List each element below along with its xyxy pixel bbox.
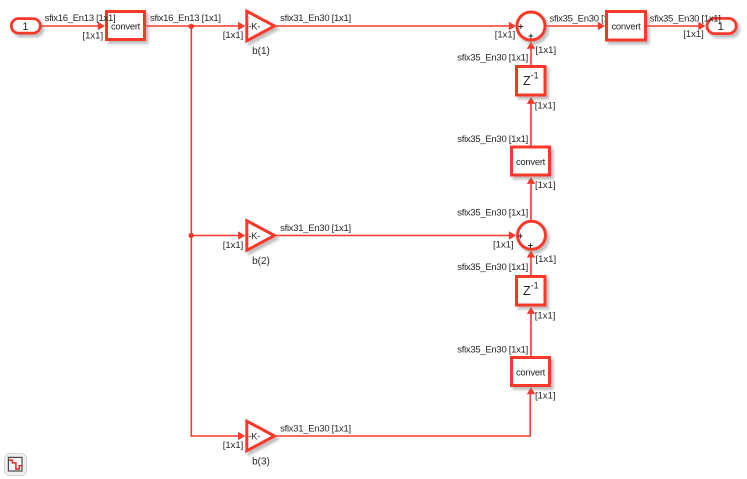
svg-text:-K-: -K-: [248, 231, 260, 242]
sample time legend button: [5, 454, 27, 476]
svg-text:[1x1]: [1x1]: [535, 180, 556, 191]
svg-text:sfix35_En30 [1x1]: sfix35_En30 [1x1]: [650, 13, 721, 24]
svg-text:sfix35_En30 [1x1]: sfix35_En30 [1x1]: [457, 134, 528, 145]
arrowhead: into Convert2: [598, 22, 605, 30]
svg-text:1: 1: [22, 21, 28, 33]
block: Delay1 Z^-1: [517, 67, 546, 96]
junction dot at branch row1: [189, 24, 194, 29]
wire: Convert2 to Out1: [647, 25, 699, 27]
svg-text:convert: convert: [516, 367, 546, 378]
arrowhead: into Sum1 left input: [509, 22, 516, 30]
arrowhead: into Delay1 bottom: [527, 97, 535, 104]
svg-text:[1x1]: [1x1]: [82, 31, 103, 42]
block: input port In1: [11, 19, 40, 33]
arrowhead: into Sum2 bottom input: [527, 250, 535, 257]
wire: b(2) row horizontal: [191, 235, 239, 237]
svg-text:[1x1]: [1x1]: [493, 240, 514, 251]
svg-text:[1x1]: [1x1]: [223, 440, 244, 451]
wire: b(3) to Convert4 (corner): [277, 389, 531, 436]
arrowhead: into Convert4 bottom: [527, 387, 535, 394]
block: output port Out1: [707, 18, 736, 33]
block: gain b(2): [247, 221, 275, 251]
svg-text:[1x1]: [1x1]: [535, 100, 556, 111]
svg-text:+: +: [518, 21, 523, 31]
svg-text:[1x1]: [1x1]: [223, 30, 244, 41]
svg-text:+: +: [518, 231, 523, 241]
arrowhead: into Convert1: [98, 22, 105, 30]
svg-text:sfix35_En30 [1x1]: sfix35_En30 [1x1]: [457, 208, 528, 219]
block: Sum1: [517, 12, 545, 40]
svg-text:convert: convert: [516, 157, 546, 168]
svg-text:sfix31_En30 [1x1]: sfix31_En30 [1x1]: [280, 424, 351, 435]
wire: branch vertical x=191: [190, 26, 192, 436]
svg-text:sfix35_En30 [1x1]: sfix35_En30 [1x1]: [457, 53, 528, 64]
svg-text:+: +: [528, 31, 533, 41]
svg-text:[1x1]: [1x1]: [223, 240, 244, 251]
block: Convert1: [107, 12, 145, 40]
svg-text:sfix35_En30 [1x1]: sfix35_En30 [1x1]: [457, 345, 528, 356]
svg-text:[1x1]: [1x1]: [535, 391, 556, 402]
block: Convert2: [607, 12, 646, 41]
sample time staircase icon: [9, 460, 22, 469]
wire: b(1) to Sum1: [277, 25, 511, 27]
wire: branch to b(3) bottom row: [190, 435, 239, 437]
block: Delay2 Z^-1: [517, 277, 546, 306]
wire: Convert3 to Delay1: [530, 99, 532, 146]
svg-text:b(2): b(2): [252, 256, 270, 267]
arrowhead: into Out1: [698, 22, 705, 30]
svg-text:[1x1]: [1x1]: [536, 254, 557, 265]
arrowhead: into Sum2 left input: [509, 231, 516, 239]
block: gain b(1): [247, 11, 275, 41]
svg-text:[1x1]: [1x1]: [535, 311, 556, 322]
wire: Sum2 to Convert3: [530, 179, 532, 220]
svg-text:[1x1]: [1x1]: [495, 30, 516, 41]
svg-text:sfix31_En30 [1x1]: sfix31_En30 [1x1]: [280, 13, 351, 24]
svg-text:-K-: -K-: [248, 22, 260, 33]
svg-text:sfix35_En30 [1x1]: sfix35_En30 [1x1]: [457, 262, 528, 273]
arrowhead: into b(3): [238, 432, 245, 440]
arrowhead: into b(1): [238, 22, 245, 30]
wire: In1 to Convert1: [41, 25, 99, 27]
arrowhead: into Sum1 bottom input: [527, 42, 535, 49]
wire: b(2) to Sum2: [277, 235, 511, 237]
svg-text:b(3): b(3): [252, 457, 270, 468]
wire: Convert1 to branch to b(1): [146, 25, 239, 27]
wire: Delay1 to Sum1 bottom input: [530, 44, 532, 65]
svg-text:convert: convert: [611, 21, 641, 32]
arrowhead: into Delay2 bottom: [527, 307, 535, 314]
block: Convert4: [512, 358, 550, 386]
wire: Delay2 to Sum2 bottom input: [530, 253, 532, 275]
junction dot at branch row2: [189, 233, 194, 238]
svg-text:[1x1]: [1x1]: [536, 45, 557, 56]
wire: Sum1 to Convert2: [547, 25, 600, 27]
wire: Convert4 to Delay2: [530, 309, 532, 356]
block: Sum2: [518, 221, 546, 249]
svg-text:+: +: [528, 241, 533, 251]
svg-text:[1x1]: [1x1]: [683, 29, 704, 40]
block: Convert3: [512, 147, 550, 175]
block: gain b(3): [247, 421, 275, 451]
svg-text:convert: convert: [111, 21, 141, 32]
arrowhead: into Convert3 bottom: [527, 177, 535, 184]
svg-text:sfix16_En13 [1x1]: sfix16_En13 [1x1]: [150, 13, 221, 24]
arrowhead: into b(2): [238, 231, 245, 239]
svg-text:sfix16_En13 [1x1]: sfix16_En13 [1x1]: [45, 13, 116, 24]
svg-text:b(1): b(1): [252, 46, 270, 57]
svg-text:-K-: -K-: [248, 432, 260, 443]
svg-text:sfix31_En30 [1x1]: sfix31_En30 [1x1]: [280, 223, 351, 234]
